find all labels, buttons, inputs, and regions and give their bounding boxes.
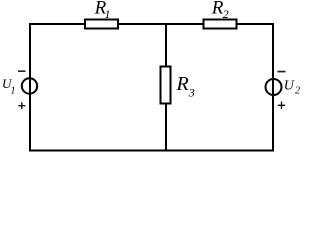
source U1 plus [18,102,25,109]
source U1 minus [18,70,26,72]
resistor R3 label [176,73,195,99]
wire middle branch [165,23,167,152]
resistor R2 label [211,0,229,21]
resistor R1 label [94,0,111,21]
wire right [272,23,274,152]
svg-text:3: 3 [188,85,195,99]
svg-text:R: R [176,73,189,95]
source U1 [22,78,37,93]
source U2 label [284,78,300,96]
svg-text:2: 2 [223,7,229,21]
svg-text:1: 1 [11,85,16,96]
source U2 plus [278,102,285,109]
wire top [29,23,274,25]
svg-text:2: 2 [295,86,300,97]
resistor R1 [85,20,118,29]
source U2 [266,79,282,95]
resistor R3 [161,67,171,104]
wire bottom [29,150,274,152]
wire left [29,23,31,152]
svg-text:1: 1 [105,7,111,21]
source U1 label [2,76,16,96]
svg-text:U: U [284,78,295,93]
source U2 minus [278,71,286,73]
resistor R2 [204,20,237,29]
